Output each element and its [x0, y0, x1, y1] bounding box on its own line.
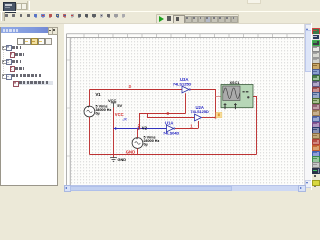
oscilloscope XSC1 [221, 81, 253, 109]
wire U2A output [202, 117, 216, 119]
op-amp U3A buffer 74LS125D [173, 77, 192, 93]
ground GND [110, 149, 135, 162]
svg-text:GND: GND [126, 149, 135, 154]
node 4 junction dot [167, 112, 169, 114]
wire left vertical [89, 90, 91, 107]
wire U1A output to U2A enable [175, 128, 198, 130]
wire V2 net up and right [140, 114, 186, 129]
wire U3A enable down [185, 93, 187, 113]
svg-text:74LS125D: 74LS125D [173, 81, 192, 86]
wire top rail net 3 [90, 89, 183, 91]
junction arrow marks on JK wire [115, 127, 117, 130]
svg-text:74LS125D: 74LS125D [190, 109, 209, 114]
source V2 [132, 126, 159, 149]
node 2 junction [139, 128, 141, 130]
svg-text:1: 1 [190, 123, 193, 128]
svg-text:GND: GND [118, 158, 127, 162]
wire JK blue horizontal [114, 128, 167, 130]
svg-text:74LS04D: 74LS04D [163, 130, 179, 135]
wire tee down to U2A input [148, 114, 195, 118]
sheet border frame [67, 34, 305, 186]
frame tick marks [67, 34, 288, 156]
svg-text:V2: V2 [142, 126, 148, 131]
wire VCC vertical [113, 108, 115, 155]
svg-text:5V: 5V [117, 103, 122, 108]
wire V2 top stub [137, 129, 139, 138]
svg-text:JK: JK [122, 116, 128, 121]
node output junction [214, 116, 216, 118]
wire U3A output right and down [191, 90, 216, 118]
wire V2 bottom stub [137, 148, 139, 154]
wire U2A enable down [198, 121, 200, 129]
svg-text:0µ: 0µ [96, 112, 100, 116]
power VCC symbol [108, 98, 123, 108]
svg-text:V1: V1 [96, 92, 102, 97]
wire right vertical [253, 97, 257, 155]
wire V1 bottom to rail [89, 117, 91, 155]
net number yellow tag [216, 112, 222, 118]
wire bottom rail net GND [90, 154, 257, 156]
source V1 [84, 92, 111, 117]
svg-text:3: 3 [129, 84, 132, 89]
transistor U1A inverter 74LS04D [163, 120, 179, 135]
svg-text:0µ: 0µ [144, 142, 148, 146]
svg-text:VCC: VCC [108, 98, 117, 103]
wire scope A stub [216, 96, 222, 98]
op-amp U2A buffer 74LS125D [190, 105, 209, 121]
